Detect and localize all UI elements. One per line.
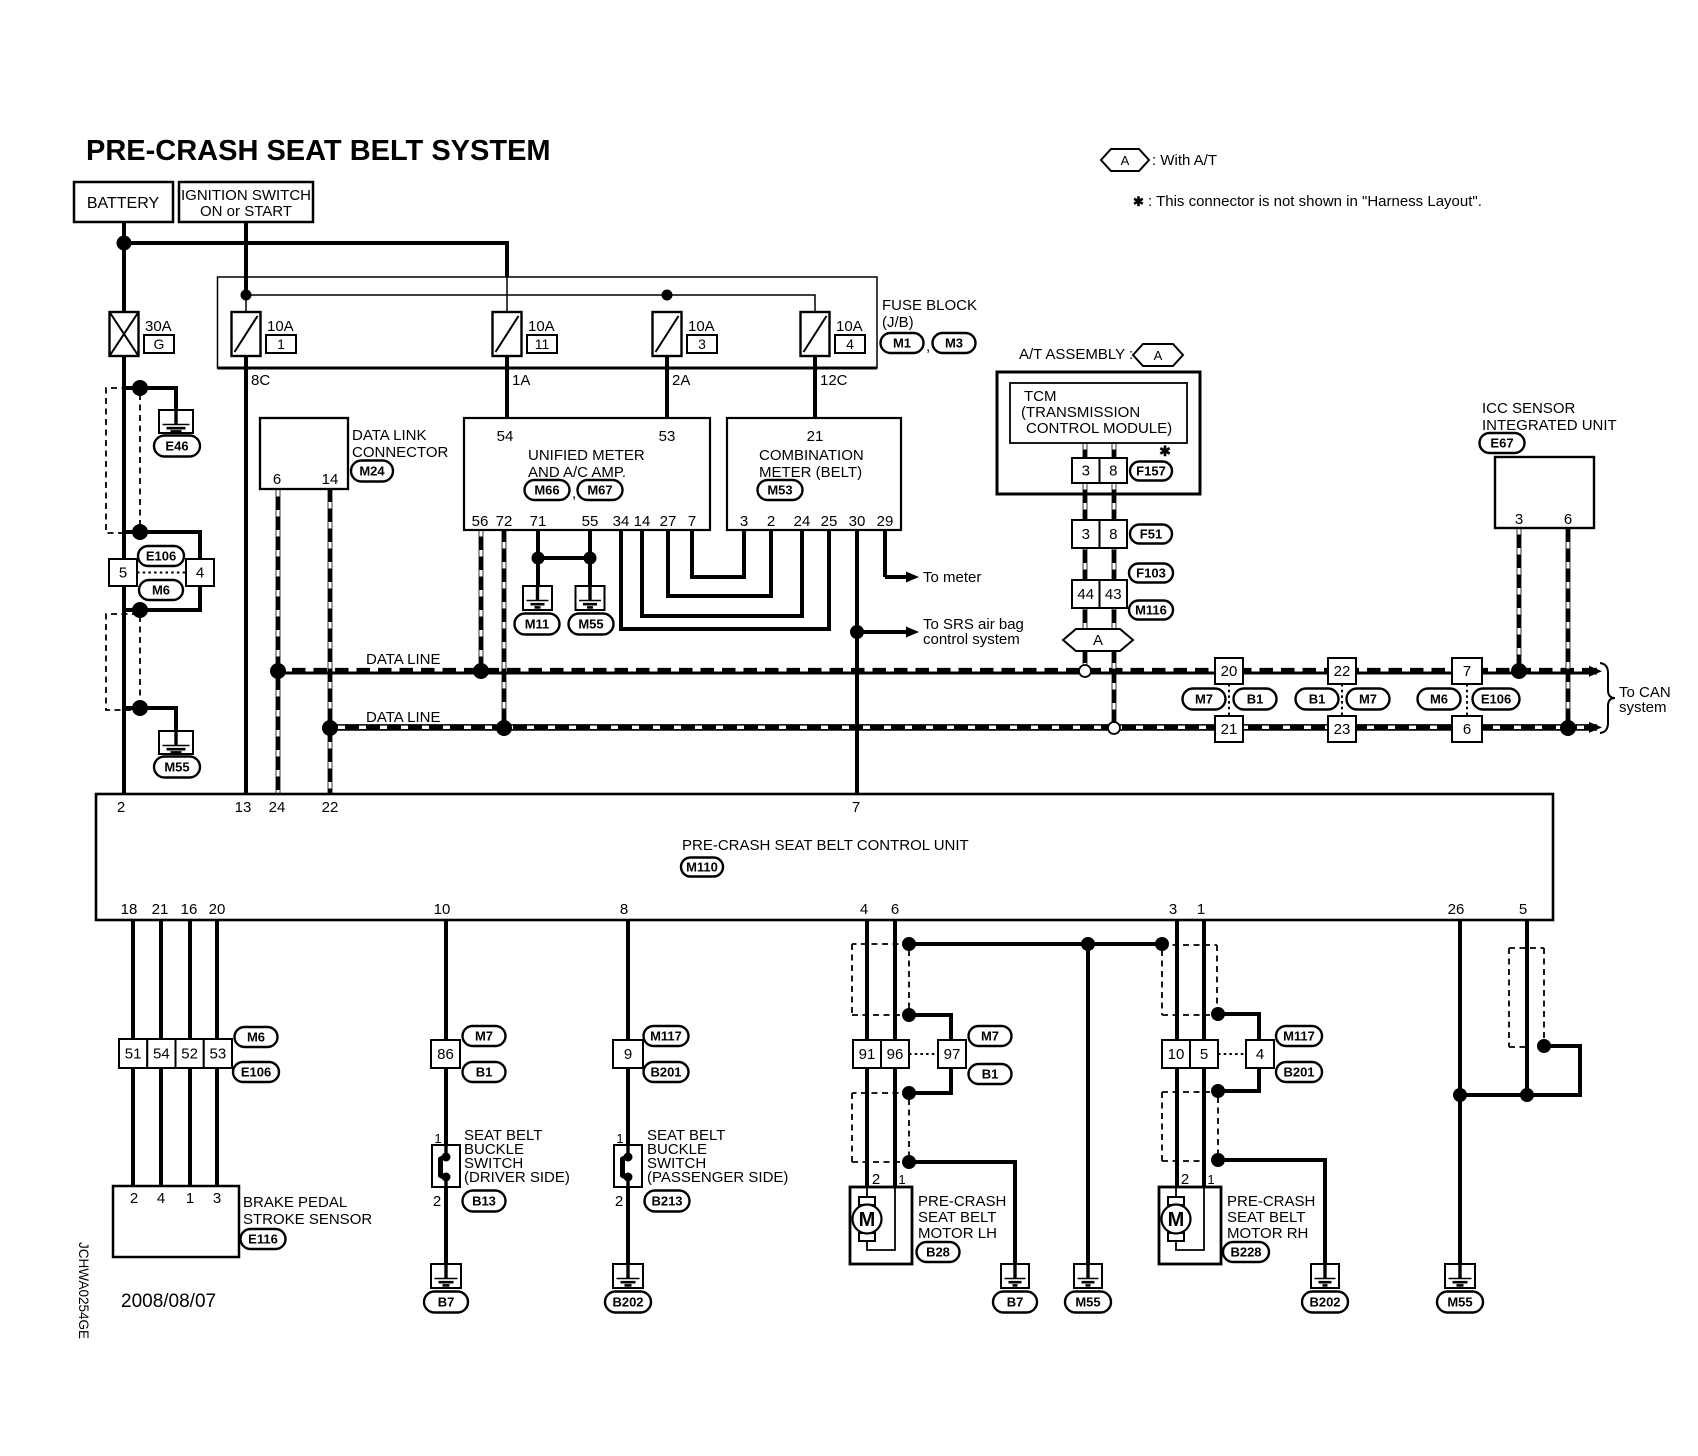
connector box 86 <box>431 1040 460 1068</box>
dashed box LH upper <box>852 944 909 1015</box>
svg-text:IGNITION SWITCH: IGNITION SWITCH <box>181 187 311 204</box>
wire buckle driver to ground B7 <box>444 1184 448 1264</box>
wire CM pin29 to meter arrow <box>883 530 887 577</box>
svg-text:control system: control system <box>923 631 1020 648</box>
svg-text:29: 29 <box>877 513 894 530</box>
connector B213 <box>645 1191 690 1212</box>
pins 44/43 connector M116 <box>1072 580 1127 608</box>
svg-text:8: 8 <box>620 901 628 918</box>
junction data line1 ICC3 <box>1511 663 1527 679</box>
wire SRS branch <box>857 630 907 634</box>
svg-text:B7: B7 <box>438 1295 455 1310</box>
svg-text:B213: B213 <box>651 1194 682 1209</box>
fuse 1 10A <box>232 312 297 356</box>
motor LH terminals <box>859 1197 875 1241</box>
svg-text:14: 14 <box>634 513 651 530</box>
svg-text:20: 20 <box>1221 663 1238 680</box>
wire pin1 to motor RH pin1 <box>1202 920 1206 1187</box>
svg-text:18: 18 <box>121 901 138 918</box>
wire buckle passenger to ground B202 <box>626 1184 630 1264</box>
junction LH box97 bottom <box>902 1086 916 1100</box>
wire pin8 to buckle switch passenger <box>626 920 630 1148</box>
CM bottom pins <box>740 513 894 530</box>
svg-text:3: 3 <box>213 1190 221 1207</box>
connector F103 <box>1129 564 1173 583</box>
open junction data line2 TCM <box>1108 722 1120 734</box>
fuse 3 10A <box>653 312 718 356</box>
connector box 20 <box>1215 658 1243 684</box>
svg-text:,: , <box>926 338 930 355</box>
svg-text:B201: B201 <box>1283 1065 1314 1080</box>
ground B7 motor LH <box>1001 1264 1029 1288</box>
svg-text:M: M <box>859 1209 876 1231</box>
junction pin5 dashed <box>1537 1039 1551 1053</box>
data line 1 (CAN-H) <box>278 668 1597 675</box>
svg-text:CONNECTOR: CONNECTOR <box>352 444 449 461</box>
junction RH B202 <box>1211 1153 1225 1167</box>
svg-text:BRAKE PEDAL: BRAKE PEDAL <box>243 1194 347 1211</box>
connector M110 <box>681 858 723 877</box>
connector M6 sensor <box>235 1027 278 1047</box>
svg-text:F103: F103 <box>1136 566 1166 581</box>
svg-text:34: 34 <box>613 513 630 530</box>
svg-text:DATA LINK: DATA LINK <box>352 427 426 444</box>
svg-text:71: 71 <box>530 513 547 530</box>
svg-text:SEAT BELT: SEAT BELT <box>1227 1209 1305 1226</box>
svg-text:B201: B201 <box>650 1065 681 1080</box>
connector M53 <box>758 480 803 500</box>
TCM box <box>1010 383 1187 443</box>
svg-text:(PASSENGER SIDE): (PASSENGER SIDE) <box>647 1169 788 1186</box>
connector M55 right <box>1437 1292 1483 1313</box>
brake pedal stroke sensor box <box>113 1186 239 1257</box>
svg-text:1: 1 <box>434 1131 441 1146</box>
svg-text:5: 5 <box>1519 901 1527 918</box>
svg-text:2: 2 <box>117 799 125 816</box>
svg-text:2A: 2A <box>672 372 690 389</box>
svg-text:6: 6 <box>1463 721 1471 738</box>
svg-text:B1: B1 <box>1247 692 1264 707</box>
svg-text:22: 22 <box>322 799 339 816</box>
junction data line1 DLC6 <box>270 663 286 679</box>
label ICC SENSOR INTEGRATED UNIT <box>1482 400 1617 434</box>
ground E46 <box>159 410 193 433</box>
svg-text:M7: M7 <box>1195 692 1213 707</box>
svg-text:55: 55 <box>582 513 599 530</box>
svg-text:SEAT BELT: SEAT BELT <box>918 1209 996 1226</box>
svg-text:E46: E46 <box>165 439 188 454</box>
dotted link 22-23 <box>1341 684 1343 716</box>
svg-text:10: 10 <box>1168 1046 1185 1063</box>
wire LH to ground B7 <box>909 1162 1015 1264</box>
connector M1 <box>881 333 924 353</box>
connector box 22 <box>1328 658 1356 684</box>
svg-text:3: 3 <box>1515 511 1523 528</box>
ground M11 <box>523 586 552 610</box>
connector M3 <box>933 333 976 353</box>
connector box 21 <box>1215 716 1243 742</box>
motor LH internal wiring <box>867 1187 895 1250</box>
motor LH M circle <box>853 1205 882 1234</box>
wire loop via connector 97 <box>909 1015 951 1093</box>
wire ICC pin3 to data line1 stripes <box>1517 528 1520 671</box>
junction ignition bus at fuse3 <box>662 290 673 301</box>
svg-text:(TRANSMISSION: (TRANSMISSION <box>1021 404 1140 421</box>
svg-text:METER (BELT): METER (BELT) <box>759 464 862 481</box>
wire link pins 71-55 <box>538 556 590 560</box>
svg-text:23: 23 <box>1334 721 1351 738</box>
connector box 5 <box>109 559 137 586</box>
wire link 26-5 <box>1460 1093 1527 1097</box>
combination meter box <box>727 418 901 530</box>
junction ground bus M55 <box>1081 937 1095 951</box>
wire TCM pin8 chain <box>1112 443 1117 730</box>
label DATA LINK CONNECTOR <box>352 427 449 461</box>
connector M117 passenger <box>644 1026 689 1046</box>
junction M55 branch <box>132 700 148 716</box>
svg-text:UNIFIED METER: UNIFIED METER <box>528 447 645 464</box>
svg-text:E67: E67 <box>1490 436 1513 451</box>
connector M55 center <box>569 614 614 635</box>
connector B1 pair1 <box>1234 689 1277 710</box>
svg-text:3: 3 <box>1082 463 1090 480</box>
svg-text:✱: ✱ <box>1159 443 1171 459</box>
TCM hexagon A <box>1063 629 1133 651</box>
svg-text:M6: M6 <box>247 1030 265 1045</box>
wire pin18 to sensor <box>131 920 135 1186</box>
svg-text:CONTROL MODULE): CONTROL MODULE) <box>1026 420 1172 437</box>
svg-text:7: 7 <box>688 513 696 530</box>
svg-text:(DRIVER SIDE): (DRIVER SIDE) <box>464 1169 570 1186</box>
svg-text:E106: E106 <box>146 549 176 564</box>
wire branch to E46 ground <box>124 388 176 412</box>
connector B7 motor LH <box>993 1292 1037 1313</box>
label PRE-CRASH SEAT BELT MOTOR RH <box>1227 1193 1315 1242</box>
connector M55 left <box>154 757 200 778</box>
svg-text:1: 1 <box>277 336 285 352</box>
svg-text:53: 53 <box>210 1046 227 1063</box>
svg-text:1: 1 <box>898 1172 905 1187</box>
crossing patches <box>328 669 1571 674</box>
svg-text:M67: M67 <box>587 483 612 498</box>
svg-text:25: 25 <box>821 513 838 530</box>
data line 1 white stripes <box>284 667 1584 671</box>
wire fuse 4 (12C) to combination meter pin 21 <box>813 356 817 418</box>
svg-text:21: 21 <box>1221 721 1238 738</box>
fuse block box <box>218 277 878 368</box>
svg-text:DATA LINE: DATA LINE <box>366 709 440 726</box>
connector B1 motor LH <box>969 1064 1012 1084</box>
connector B1 pair2 <box>1296 689 1339 710</box>
svg-text:TCM: TCM <box>1024 388 1057 405</box>
motor RH M circle <box>1162 1205 1191 1234</box>
wire UM pin27 to CM pin2 <box>668 530 771 596</box>
svg-text:PRE-CRASH SEAT BELT CONTROL UN: PRE-CRASH SEAT BELT CONTROL UNIT <box>682 837 969 854</box>
AT hexagon A <box>1133 344 1183 366</box>
connector B7 driver <box>424 1292 468 1313</box>
wire pin21 to sensor <box>159 920 163 1186</box>
buckle switch passenger contact <box>623 1145 633 1187</box>
wire pin20 to sensor <box>215 920 219 1186</box>
svg-text:: With A/T: : With A/T <box>1152 152 1217 169</box>
wire DLC pin14 to data line2/control pin22 stripes <box>328 490 331 794</box>
svg-text:PRE-CRASH: PRE-CRASH <box>1227 1193 1315 1210</box>
svg-text:2: 2 <box>130 1190 138 1207</box>
svg-text:E106: E106 <box>1481 692 1511 707</box>
connector B28 <box>917 1242 960 1262</box>
wire ignition to fuse 1 <box>244 222 248 295</box>
wire pin10 to buckle switch driver <box>444 920 448 1148</box>
wire ground bus to M55 <box>1086 944 1090 1264</box>
svg-text:96: 96 <box>887 1046 904 1063</box>
connector box 23 <box>1328 716 1356 742</box>
wire UM pin72 to data line2 stripes <box>502 530 505 730</box>
svg-text:13: 13 <box>235 799 252 816</box>
connector M7 driver <box>463 1026 506 1046</box>
svg-text:A: A <box>1121 153 1130 168</box>
wire DLC pin14 to data line2/control pin22 <box>328 490 333 794</box>
svg-text:4: 4 <box>157 1190 165 1207</box>
connector M7 pair2 <box>1347 689 1390 710</box>
wire UM pin56 to data line1 <box>479 530 484 671</box>
svg-text:14: 14 <box>322 471 339 488</box>
AT assembly box <box>997 372 1200 494</box>
svg-text:97: 97 <box>944 1046 961 1063</box>
dashed link dot3-dot4 <box>139 616 141 702</box>
svg-text:M55: M55 <box>1447 1295 1472 1310</box>
junction ignition bus at fuse1 <box>241 290 252 301</box>
svg-text:B228: B228 <box>1230 1245 1261 1260</box>
dashed shield box at M55 <box>106 614 138 710</box>
svg-text:PRE-CRASH SEAT BELT SYSTEM: PRE-CRASH SEAT BELT SYSTEM <box>86 135 551 167</box>
svg-text:M6: M6 <box>1430 692 1448 707</box>
connector E106 pair3 <box>1473 689 1520 710</box>
motor RH internal wiring <box>1176 1187 1204 1250</box>
svg-text:72: 72 <box>496 513 513 530</box>
wire TCM pin3 chain <box>1083 443 1088 671</box>
connector M11 <box>515 614 560 635</box>
svg-text:10A: 10A <box>688 318 715 335</box>
thin feed to fuse 1 <box>245 295 247 312</box>
connector M116 <box>1129 601 1173 620</box>
label TCM <box>1021 388 1172 437</box>
sensor pins <box>130 1190 221 1207</box>
svg-text:4: 4 <box>846 336 854 352</box>
ground B202 motor RH <box>1311 1264 1339 1288</box>
svg-text:,: , <box>572 485 576 502</box>
wire pin5 down <box>1525 920 1529 1095</box>
svg-text:7: 7 <box>852 799 860 816</box>
motor RH terminals <box>1168 1197 1184 1241</box>
wire pin4 to motor LH pin2 <box>865 920 869 1194</box>
data line 2 (CAN-L) <box>330 724 1597 731</box>
svg-text:(J/B): (J/B) <box>882 314 914 331</box>
svg-text:8C: 8C <box>251 372 270 389</box>
svg-text:6: 6 <box>273 471 281 488</box>
dotted link 20-21 <box>1228 684 1230 716</box>
buckle switch passenger box <box>614 1145 642 1187</box>
svg-text:30: 30 <box>849 513 866 530</box>
svg-text:E106: E106 <box>241 1065 271 1080</box>
fuse 11 10A <box>493 312 558 356</box>
connector box 7 <box>1452 658 1482 684</box>
svg-text:4: 4 <box>860 901 868 918</box>
motor RH box <box>1159 1187 1221 1264</box>
junction data line2 DLC14 <box>322 720 338 736</box>
svg-text:JCHWA0254GE: JCHWA0254GE <box>76 1242 91 1339</box>
wire loop via connector 4 <box>1218 1014 1259 1091</box>
connector E106 sensor <box>233 1062 279 1082</box>
svg-text:21: 21 <box>152 901 169 918</box>
label UNIFIED METER AND A/C AMP. <box>528 447 645 481</box>
svg-text:2008/08/07: 2008/08/07 <box>121 1291 216 1312</box>
svg-text:1A: 1A <box>512 372 530 389</box>
svg-text:M117: M117 <box>650 1029 682 1044</box>
svg-text:F157: F157 <box>1136 464 1166 479</box>
data line 1 arrow to CAN <box>1589 666 1602 677</box>
junction E106 connector bottom <box>132 602 148 618</box>
connector row 10/5 <box>1162 1040 1218 1068</box>
junction RH box4 bottom <box>1211 1084 1225 1098</box>
svg-text:B13: B13 <box>472 1194 496 1209</box>
connector row 91/96 <box>853 1040 909 1068</box>
junction data line2 UM72 <box>496 720 512 736</box>
svg-text:5: 5 <box>1200 1046 1208 1063</box>
arrow to meter <box>885 572 919 583</box>
fuse 4 10A <box>801 312 866 356</box>
battery box <box>74 182 173 222</box>
wire TCM pin8 chain stripes <box>1112 443 1115 730</box>
dashed box RH upper <box>1162 945 1217 1015</box>
svg-text:A: A <box>1093 632 1103 649</box>
svg-text:3: 3 <box>1082 526 1090 543</box>
label To CAN system <box>1619 684 1671 716</box>
connector row 51/54/52/53 <box>119 1039 232 1068</box>
connector E46 <box>154 436 200 457</box>
wire TCM pin3 chain stripes <box>1083 443 1086 671</box>
wire fuse G down to control unit pin 2 <box>122 356 126 794</box>
svg-text:27: 27 <box>660 513 677 530</box>
ground M55 motor <box>1074 1264 1102 1288</box>
svg-text:9: 9 <box>624 1046 632 1063</box>
svg-text:M11: M11 <box>525 617 550 632</box>
svg-text:M66: M66 <box>534 483 559 498</box>
svg-text:M117: M117 <box>1283 1029 1315 1044</box>
svg-text:G: G <box>154 336 165 352</box>
connector M6 pair3 <box>1418 689 1461 710</box>
wire pin26 to ground M55 right <box>1458 920 1462 1264</box>
svg-text:1: 1 <box>1197 901 1205 918</box>
connector M24 <box>351 461 393 482</box>
svg-text:M55: M55 <box>578 617 603 632</box>
svg-text:B1: B1 <box>476 1065 493 1080</box>
wire battery to fuse G <box>122 222 126 312</box>
connector B228 <box>1223 1242 1269 1262</box>
buckle switch driver box <box>432 1145 460 1187</box>
label SEAT BELT BUCKLE SWITCH (PASSENGER SIDE) <box>647 1127 788 1186</box>
svg-text:1: 1 <box>186 1190 194 1207</box>
svg-text:7: 7 <box>1463 663 1471 680</box>
wire RH to ground B202 <box>1218 1160 1325 1264</box>
motor LH box <box>850 1187 912 1264</box>
svg-text:2: 2 <box>433 1193 441 1210</box>
svg-text:B202: B202 <box>612 1295 643 1310</box>
pre-crash seat belt control unit box <box>96 794 1553 920</box>
ignition switch box <box>179 182 313 222</box>
svg-text:24: 24 <box>794 513 811 530</box>
svg-text:44: 44 <box>1077 586 1094 603</box>
junction E106 connector top <box>132 524 148 540</box>
wire UM pin55 to ground M55 <box>588 530 592 586</box>
svg-text:PRE-CRASH: PRE-CRASH <box>918 1193 1006 1210</box>
junction ground bus right <box>1155 937 1169 951</box>
svg-text:F51: F51 <box>1140 527 1162 542</box>
svg-text:16: 16 <box>181 901 198 918</box>
junction E46 branch <box>132 380 148 396</box>
pins 3/8 connector F51 <box>1072 520 1127 548</box>
connector box 4 <box>186 559 214 586</box>
svg-text:✱: ✱ <box>1133 194 1144 209</box>
svg-text:30A: 30A <box>145 318 172 335</box>
buckle switch driver contact <box>441 1145 451 1187</box>
connector M7 motor LH <box>969 1026 1012 1046</box>
label To SRS air bag control system <box>923 616 1024 648</box>
connector B202 motor RH <box>1302 1292 1348 1313</box>
dashed box far right <box>1509 948 1544 1047</box>
wire DLC pin6 to data line1/control pin24 <box>276 490 281 794</box>
svg-text:53: 53 <box>659 428 676 445</box>
svg-text:To meter: To meter <box>923 569 981 586</box>
connector M55 motor <box>1065 1292 1111 1313</box>
svg-text:5: 5 <box>119 565 127 582</box>
svg-text:1: 1 <box>616 1131 623 1146</box>
svg-text:FUSE BLOCK: FUSE BLOCK <box>882 297 977 314</box>
connector box 9 <box>613 1040 643 1068</box>
wire pin6 to motor LH pin1 <box>893 920 897 1187</box>
wire UM pin56 to data line1 stripes <box>479 530 482 671</box>
svg-text:COMBINATION: COMBINATION <box>759 447 864 464</box>
connector F51 <box>1130 525 1172 544</box>
svg-text:B7: B7 <box>1007 1295 1024 1310</box>
ICC sensor box <box>1495 457 1594 528</box>
svg-text:M55: M55 <box>1075 1295 1100 1310</box>
svg-text:54: 54 <box>497 428 514 445</box>
wire branch to M55 ground <box>124 708 176 733</box>
svg-text:E116: E116 <box>248 1232 278 1247</box>
svg-text:A/T ASSEMBLY :: A/T ASSEMBLY : <box>1019 346 1133 363</box>
svg-text:DATA LINE: DATA LINE <box>366 651 440 668</box>
connector B13 <box>463 1191 506 1212</box>
thin feed to fuse 11 <box>506 277 508 312</box>
junction data line2 ICC6 <box>1560 720 1576 736</box>
wire DLC pin6 to data line1/control pin24 stripes <box>276 490 279 794</box>
wire fuse 1 (8C) to control unit pin 13 <box>244 356 248 794</box>
wire pin16 to sensor <box>188 920 192 1186</box>
unified meter box <box>464 418 710 530</box>
data line 2 arrow to CAN <box>1589 722 1602 733</box>
dotted link 96-97 <box>909 1053 938 1055</box>
svg-text:STROKE SENSOR: STROKE SENSOR <box>243 1211 372 1228</box>
junction 26-5 <box>1453 1088 1467 1102</box>
svg-text:3: 3 <box>698 336 706 352</box>
fuse block bottom edge <box>218 367 878 370</box>
junction LH B7 <box>902 1155 916 1169</box>
open junction data line1 TCM <box>1079 665 1091 677</box>
junction battery feed <box>117 236 132 251</box>
svg-text:43: 43 <box>1105 586 1122 603</box>
svg-text:4: 4 <box>196 565 204 582</box>
svg-text:2: 2 <box>1181 1171 1189 1188</box>
